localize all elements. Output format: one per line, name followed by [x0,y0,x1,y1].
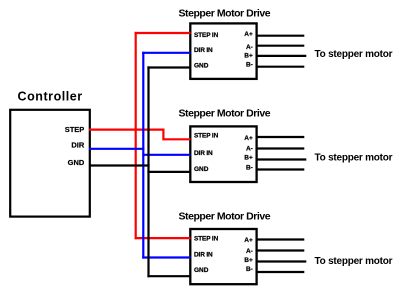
drive 1 motor wire B+ [257,55,306,57]
svg-text:DIR IN: DIR IN [194,252,213,259]
svg-text:STEP IN: STEP IN [194,32,219,39]
svg-text:B+: B+ [244,155,253,162]
wire: GND net (black) controller to bus [89,164,150,166]
wire: STEP net (red) stub to drive 3 [135,237,191,239]
svg-text:Stepper Motor Drive: Stepper Motor Drive [179,108,271,120]
svg-text:B-: B- [246,266,253,273]
wire: DIR net (blue) stub to drive 3 [142,256,190,258]
svg-text:Controller: Controller [18,90,83,104]
svg-text:DIR IN: DIR IN [194,47,213,54]
svg-text:B+: B+ [244,257,253,264]
drive 1 motor wire A+ [257,35,304,37]
svg-text:GND: GND [194,166,209,173]
svg-text:DIR: DIR [71,141,85,150]
svg-text:STEP IN: STEP IN [194,235,219,242]
svg-text:A-: A- [246,146,253,153]
svg-text:A-: A- [246,44,253,51]
svg-text:A+: A+ [244,237,253,244]
wire: GND net (black) stub to drive 1 [147,66,190,68]
drive 3 motor wire B+ [257,260,306,262]
svg-text:A+: A+ [244,135,253,142]
svg-text:GND: GND [194,267,209,274]
drive 2 motor wire A+ [257,136,304,138]
svg-text:To stepper motor: To stepper motor [315,49,393,60]
drive 2 motor wire B- [257,168,304,170]
svg-text:B+: B+ [244,52,253,59]
wire: DIR net (blue) stub to drive 2 [142,154,190,156]
drive 1 motor wire B- [257,66,304,68]
svg-text:To stepper motor: To stepper motor [315,256,393,267]
drive 2 box [190,126,256,182]
svg-text:GND: GND [194,62,209,69]
wire: STEP net (red) controller to drive 2 with jog [89,130,191,140]
svg-text:B-: B- [246,164,253,171]
svg-text:GND: GND [68,158,85,167]
drive 1 box [190,23,256,79]
svg-text:To stepper motor: To stepper motor [315,153,393,164]
drive 3 motor wire A+ [257,238,304,240]
svg-text:Stepper Motor Drive: Stepper Motor Drive [179,211,271,223]
drive 3 motor wire B- [257,271,304,273]
wire: GND net (black) stub to drive 2 [147,171,190,173]
svg-text:A-: A- [246,248,253,255]
wire: DIR net (blue) stub to drive 1 [142,52,190,54]
svg-text:DIR IN: DIR IN [194,150,213,157]
drive 3 motor wire A- [257,249,304,251]
svg-text:Stepper Motor Drive: Stepper Motor Drive [179,8,271,20]
wire: STEP net (red) vertical bus [135,32,137,239]
controller U0 box [10,110,90,217]
wire: DIR net (blue) controller to bus [89,148,144,150]
drive 1 motor wire A- [257,45,304,47]
svg-text:B-: B- [246,62,253,69]
svg-text:STEP: STEP [65,125,85,134]
drive 2 motor wire A- [257,147,304,149]
wire: STEP net (red) stub to drive 1 [135,32,191,34]
drive 2 motor wire B+ [257,158,306,160]
drive 3 box [190,229,256,284]
wire: DIR net (blue) vertical bus [142,52,144,259]
wire: GND net (black) stub to drive 3 [147,275,190,277]
svg-text:A+: A+ [244,31,253,38]
svg-text:STEP IN: STEP IN [194,133,219,140]
wire: GND net (black) vertical bus [147,66,149,277]
